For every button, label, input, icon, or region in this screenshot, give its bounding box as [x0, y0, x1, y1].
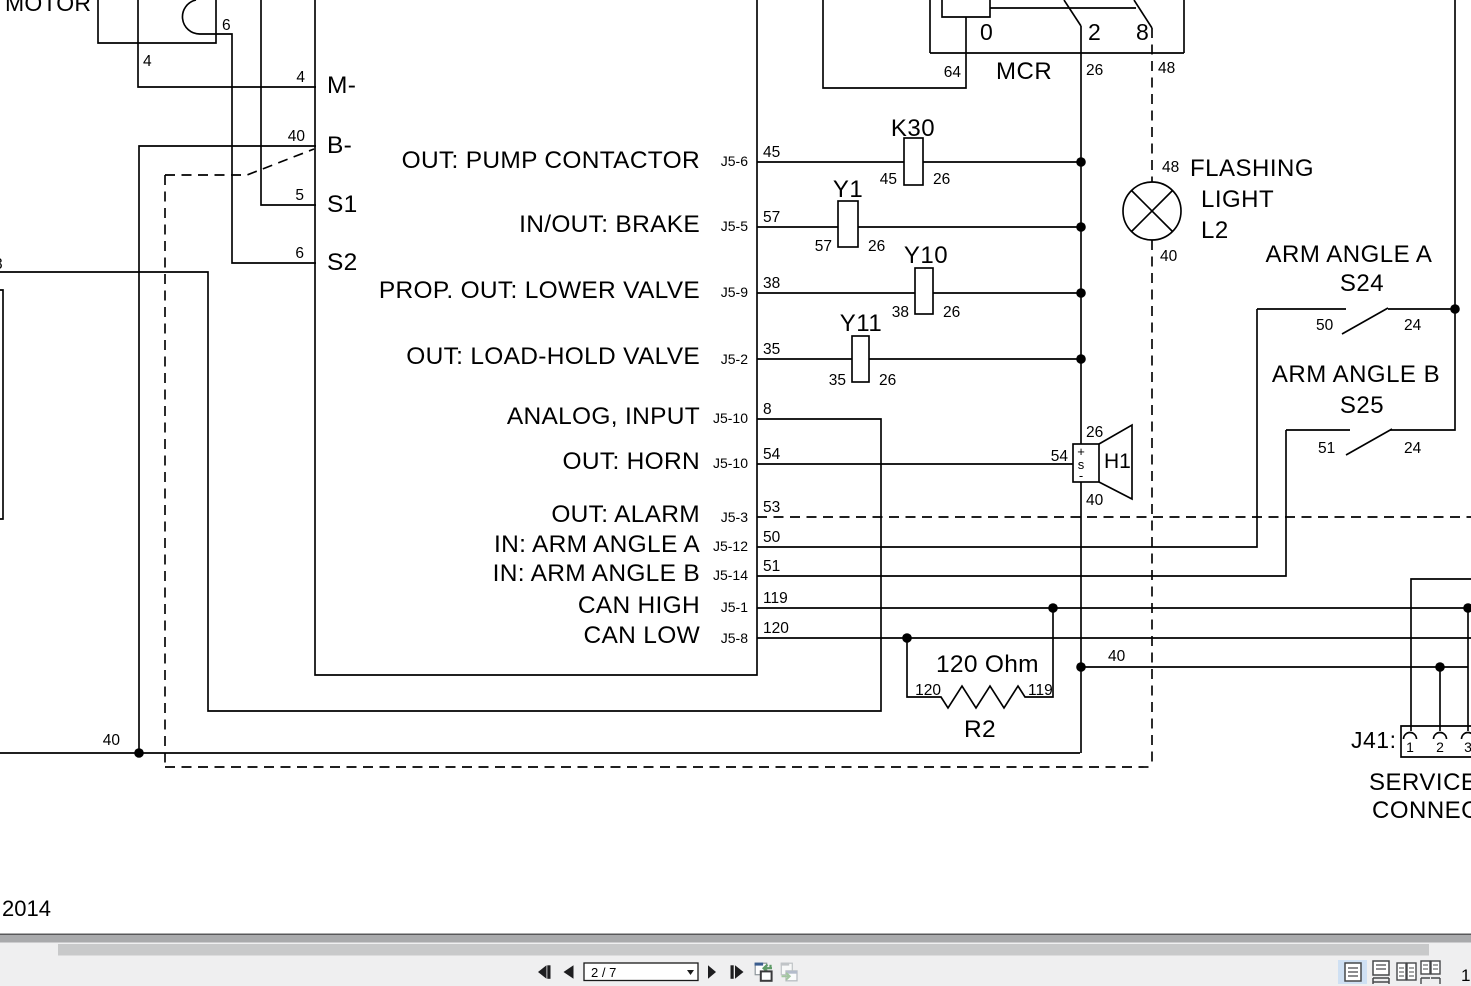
previous page button [564, 965, 574, 979]
svg-text:CAN LOW: CAN LOW [584, 622, 701, 649]
svg-text:ANALOG, INPUT: ANALOG, INPUT [507, 403, 700, 430]
svg-text:CAN HIGH: CAN HIGH [578, 592, 700, 619]
wire 24 right bus [1390, 0, 1455, 430]
wire 35 load-hold valve [757, 341, 1080, 359]
switch S25 [1286, 429, 1422, 457]
svg-text:120 Ohm: 120 Ohm [936, 651, 1039, 678]
junction brake/26 [1076, 222, 1086, 232]
svg-text:S24: S24 [1340, 270, 1384, 297]
svg-text:IN: ARM ANGLE B: IN: ARM ANGLE B [493, 560, 700, 587]
svg-text:S25: S25 [1340, 392, 1384, 419]
svg-text:0: 0 [980, 19, 993, 45]
svg-text:50: 50 [763, 529, 781, 546]
bottom bus wire 40 [0, 732, 1080, 753]
svg-text:24: 24 [1404, 440, 1422, 457]
wire 64 MCR coil [823, 0, 966, 88]
svg-text:57: 57 [763, 209, 780, 226]
svg-text:40: 40 [1108, 648, 1126, 665]
J41 pin 3 [1462, 733, 1471, 755]
solenoid Y11 [829, 310, 897, 389]
svg-text:MOTOR: MOTOR [5, 0, 91, 16]
svg-text:1: 1 [1461, 966, 1470, 985]
MCR label [996, 58, 1052, 85]
motor coil arc [182, 0, 200, 34]
svg-text:S2: S2 [327, 249, 358, 276]
wire 120 CAN low [757, 620, 1471, 638]
label OUT: ALARM [551, 501, 748, 528]
svg-text:CONNECTOR: CONNECTOR [1372, 797, 1471, 824]
wire 45 pump contactor [757, 144, 1080, 162]
junction pin2 [1435, 662, 1445, 672]
svg-text:J5-2: J5-2 [721, 351, 748, 367]
svg-text:26: 26 [933, 171, 950, 188]
svg-text:119: 119 [763, 590, 788, 607]
controller U1 box [315, 0, 757, 675]
svg-text:J5-3: J5-3 [721, 509, 748, 525]
wire 0 [980, 8, 1136, 45]
wire 6 motor to S2 [200, 17, 316, 263]
label ARM ANGLE A S24 [1266, 241, 1433, 297]
svg-text:SERVICE: SERVICE [1369, 769, 1471, 796]
svg-text:B-: B- [327, 132, 352, 159]
wire 40 dashed below lamp [1152, 240, 1178, 767]
svg-text:5: 5 [295, 187, 304, 204]
left edge box [0, 290, 3, 519]
svg-text:35: 35 [763, 341, 780, 358]
svg-text:64: 64 [944, 64, 962, 81]
svg-text:S1: S1 [327, 191, 358, 218]
svg-text:35: 35 [829, 372, 846, 389]
svg-text:FLASHING: FLASHING [1190, 155, 1314, 182]
MCR contact blade right [1134, 0, 1152, 45]
wire 8 analog input loop [0, 256, 881, 711]
svg-text:45: 45 [763, 144, 780, 161]
footer year 2014 [2, 896, 51, 921]
viewer scrollbar dark edge [0, 934, 1471, 936]
zoom value cut [1461, 966, 1470, 985]
svg-text:4: 4 [296, 69, 305, 86]
svg-text:38: 38 [763, 275, 780, 292]
motor housing box [98, 0, 216, 43]
svg-text:K30: K30 [891, 115, 935, 142]
svg-text:3: 3 [1464, 739, 1471, 755]
svg-text:57: 57 [815, 238, 832, 255]
wire 40 B- down to bottom bus [139, 128, 316, 753]
scrollbar thumb [58, 944, 1429, 956]
wire 38 lower valve [757, 275, 1080, 293]
svg-text:2014: 2014 [2, 896, 51, 921]
svg-text:J5-9: J5-9 [721, 284, 748, 300]
svg-text:45: 45 [880, 171, 897, 188]
svg-text:51: 51 [763, 558, 780, 575]
svg-text:H1: H1 [1104, 450, 1131, 473]
label FLASHING LIGHT L2 [1190, 155, 1314, 244]
svg-text:2: 2 [1088, 19, 1101, 45]
resistor R2 [907, 608, 1053, 743]
label PROP. OUT: LOWER VALVE [379, 277, 748, 304]
junction pump/26 [1076, 157, 1086, 167]
wire 51 arm angle B [757, 430, 1286, 576]
wire 40 to J41 pin2 [1081, 648, 1468, 667]
svg-text:40: 40 [1160, 248, 1178, 265]
svg-text:Y1: Y1 [833, 176, 863, 203]
svg-text:OUT: ALARM: OUT: ALARM [551, 501, 700, 528]
junction on bottom bus [134, 748, 144, 758]
two page layout icon [1397, 963, 1416, 980]
dashed harness top to B- [165, 149, 314, 175]
svg-text:26: 26 [868, 238, 885, 255]
node B- [327, 132, 352, 159]
wire 54 horn [757, 446, 1073, 465]
MCR contact blade left [1064, 0, 1101, 45]
junction S24/24 [1450, 304, 1460, 314]
lamp L2 flashing light [1123, 182, 1181, 240]
wire to J41 pin1 [1411, 579, 1471, 731]
svg-text:51: 51 [1318, 440, 1335, 457]
junction CAN low [902, 633, 912, 643]
svg-text:J5-6: J5-6 [721, 153, 748, 169]
solenoid Y1 [815, 176, 886, 255]
relay coil K30 [880, 115, 951, 188]
svg-text:26: 26 [1086, 62, 1103, 79]
junction lower/26 [1076, 288, 1086, 298]
viewer toolbar background [0, 943, 1471, 986]
svg-text:J5-8: J5-8 [721, 630, 748, 646]
svg-text:ARM ANGLE B: ARM ANGLE B [1272, 361, 1440, 388]
first page button [538, 965, 551, 979]
svg-text:6: 6 [222, 17, 231, 34]
label IN/OUT: BRAKE [519, 211, 748, 238]
horn H1 [1073, 424, 1132, 509]
label ARM ANGLE B S25 [1272, 361, 1440, 419]
wire 119 CAN high [757, 590, 1468, 608]
svg-text:M-: M- [327, 72, 356, 99]
svg-text:54: 54 [1051, 448, 1069, 465]
wire 50 arm angle A [757, 309, 1257, 547]
svg-text:4: 4 [143, 53, 152, 70]
wire pin2 drop [1439, 667, 1441, 731]
svg-text:OUT: LOAD-HOLD VALVE: OUT: LOAD-HOLD VALVE [406, 343, 700, 370]
motor M label [5, 0, 91, 16]
MCR bottom wire [930, 0, 1184, 53]
wire 4 motor to M- [138, 0, 316, 87]
svg-text:PROP. OUT: LOWER VALVE: PROP. OUT: LOWER VALVE [379, 277, 700, 304]
junction wire 40 branch [1076, 662, 1086, 672]
svg-text:120: 120 [763, 620, 789, 637]
svg-text:LIGHT: LIGHT [1201, 186, 1274, 213]
svg-text:J5-5: J5-5 [721, 218, 748, 234]
svg-text:26: 26 [943, 304, 960, 321]
J41 pin 1 [1404, 733, 1417, 755]
svg-text:38: 38 [892, 304, 909, 321]
svg-text:2: 2 [1436, 739, 1444, 755]
svg-text:Y10: Y10 [904, 242, 948, 269]
MCR coil box [942, 0, 990, 17]
svg-text:2 / 7: 2 / 7 [591, 965, 616, 980]
svg-text:-: - [1079, 468, 1083, 483]
label IN: ARM ANGLE B [493, 560, 749, 587]
svg-text:J5-12: J5-12 [713, 538, 748, 554]
next view icon disabled [781, 963, 797, 981]
wire pin3 drop [1467, 608, 1469, 731]
svg-text:IN/OUT: BRAKE: IN/OUT: BRAKE [519, 211, 700, 238]
previous view icon [755, 963, 772, 981]
svg-text:OUT: PUMP CONTACTOR: OUT: PUMP CONTACTOR [402, 147, 700, 174]
svg-text:8: 8 [763, 401, 772, 418]
svg-text:50: 50 [1316, 317, 1334, 334]
connector J41 box [1351, 726, 1471, 757]
svg-text:48: 48 [1158, 60, 1175, 77]
next page button [708, 965, 716, 979]
dashed harness bottom [165, 766, 1152, 768]
wire 48 dashed upper [1152, 28, 1179, 182]
dashed harness left [164, 175, 166, 767]
svg-text:120: 120 [915, 682, 941, 699]
label OUT: HORN [563, 448, 749, 475]
node S1 [327, 191, 358, 218]
svg-text:R2: R2 [964, 716, 996, 743]
svg-text:40: 40 [103, 732, 121, 749]
svg-text:8: 8 [0, 256, 3, 273]
svg-text:MCR: MCR [996, 58, 1052, 85]
wire 5 to S1 [261, 0, 316, 205]
svg-text:8: 8 [1136, 19, 1149, 45]
viewer scrollbar upper strip [0, 935, 1471, 943]
label ANALOG, INPUT [507, 401, 772, 430]
svg-text:Y11: Y11 [840, 310, 882, 337]
svg-text:54: 54 [763, 446, 781, 463]
node M- [327, 72, 356, 99]
svg-text:J5-10: J5-10 [713, 455, 748, 471]
wire 57 brake [757, 209, 1080, 227]
junction CAN high [1048, 603, 1058, 613]
svg-text:ARM ANGLE A: ARM ANGLE A [1266, 241, 1433, 268]
label IN: ARM ANGLE A [494, 531, 748, 558]
svg-text:24: 24 [1404, 317, 1422, 334]
svg-text:26: 26 [879, 372, 896, 389]
svg-text:119: 119 [1028, 682, 1053, 699]
svg-text:1: 1 [1406, 739, 1414, 755]
label SERVICE CONNECTOR [1369, 769, 1471, 824]
junction pin3 [1463, 603, 1471, 613]
svg-text:IN: ARM ANGLE A: IN: ARM ANGLE A [494, 531, 700, 558]
page number box [584, 963, 698, 981]
label CAN LOW [584, 622, 749, 649]
svg-text:L2: L2 [1201, 217, 1229, 244]
last page button [731, 965, 744, 979]
continuous layout icon [1373, 961, 1389, 984]
svg-text:26: 26 [1086, 424, 1103, 441]
label OUT: LOAD-HOLD VALVE [406, 343, 748, 370]
switch S24 [1257, 308, 1455, 334]
svg-text:J5-10: J5-10 [713, 410, 748, 426]
two page continuous icon [1421, 961, 1440, 984]
node S2 [327, 249, 358, 276]
svg-text:53: 53 [763, 499, 780, 516]
solenoid Y10 [892, 242, 961, 321]
single page layout icon active [1338, 960, 1367, 984]
svg-text:J5-1: J5-1 [721, 599, 748, 615]
svg-text:J41:: J41: [1351, 727, 1396, 753]
label CAN HIGH [578, 592, 748, 619]
svg-text:40: 40 [1086, 492, 1104, 509]
svg-text:J5-14: J5-14 [713, 567, 748, 583]
svg-text:40: 40 [288, 128, 306, 145]
junction load-hold/26 [1076, 354, 1086, 364]
J41 pin 2 [1434, 733, 1447, 755]
svg-text:6: 6 [295, 245, 304, 262]
wire 26 bus [1081, 26, 1103, 753]
wire 53 alarm dashed [757, 499, 1471, 517]
svg-text:OUT: HORN: OUT: HORN [563, 448, 700, 475]
label OUT: PUMP CONTACTOR [402, 147, 749, 174]
svg-text:48: 48 [1162, 159, 1179, 176]
